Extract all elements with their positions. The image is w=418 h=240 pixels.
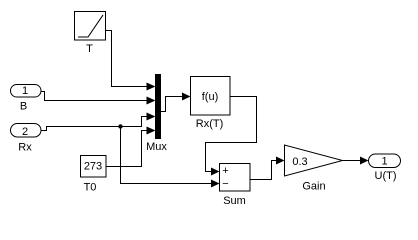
svg-text:1: 1	[22, 85, 28, 97]
svg-text:273: 273	[84, 161, 102, 173]
wire junction to Sum minus input	[121, 127, 220, 188]
wire B to Mux input 2	[41, 92, 156, 105]
sum block Sum	[220, 164, 251, 208]
svg-text:T0: T0	[84, 182, 97, 194]
svg-text:B: B	[20, 101, 27, 113]
wire T to Mux input 1	[106, 31, 156, 91]
svg-text:Gain: Gain	[302, 181, 325, 193]
svg-text:Sum: Sum	[223, 195, 246, 207]
svg-text:−: −	[222, 178, 228, 190]
wire Gain to outport	[343, 157, 369, 165]
fcn block Rx(T) f(u)	[191, 77, 231, 131]
outport 1 U(T)	[369, 154, 401, 182]
svg-text:T: T	[86, 43, 93, 55]
svg-text:+: +	[222, 165, 228, 177]
wire T0 to Mux input 4	[106, 127, 156, 167]
svg-text:Rx(T): Rx(T)	[196, 118, 224, 130]
svg-text:U(T): U(T)	[375, 170, 397, 182]
svg-text:f(u): f(u)	[202, 91, 219, 103]
inport 2 Rx	[11, 124, 42, 154]
constant block T0 value 273	[81, 156, 107, 194]
wire Mux to Fcn	[161, 93, 191, 112]
svg-text:0.3: 0.3	[292, 156, 307, 168]
svg-text:1: 1	[381, 156, 387, 168]
gain block Gain value 0.3	[285, 145, 343, 193]
wire Sum to Gain	[250, 157, 285, 180]
ramp source block T	[75, 12, 106, 56]
svg-text:Rx: Rx	[18, 142, 32, 154]
inport 1 B	[11, 85, 42, 113]
svg-text:2: 2	[22, 126, 28, 138]
wire Rx to Mux input 3	[41, 113, 156, 131]
wire Fcn to Sum plus input	[206, 97, 257, 176]
mux block Mux	[146, 74, 167, 153]
junction node on Rx wire	[118, 124, 122, 128]
svg-text:Mux: Mux	[146, 141, 167, 153]
